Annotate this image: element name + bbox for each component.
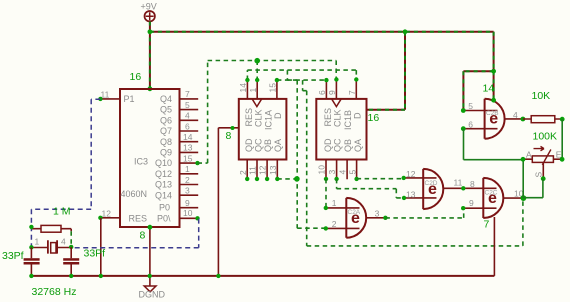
svg-text:13: 13 bbox=[406, 189, 416, 199]
wire IC2B pin6 to pot A green bbox=[464, 129, 523, 160]
svg-text:D: D bbox=[353, 112, 363, 119]
svg-text:2: 2 bbox=[238, 170, 248, 175]
node +9V junction at rail left bbox=[148, 29, 153, 34]
node IC2A pin2 bbox=[324, 226, 328, 230]
wire IC1B QA to gate pin12 dashed bbox=[357, 178, 404, 180]
svg-text:7: 7 bbox=[185, 89, 190, 99]
wire IC1A bottom pin lines bbox=[247, 160, 277, 179]
node IC3 pin10 bbox=[195, 216, 199, 220]
svg-text:4: 4 bbox=[61, 237, 66, 247]
svg-text:Q6: Q6 bbox=[160, 115, 172, 125]
svg-text:1 M: 1 M bbox=[53, 206, 71, 218]
node +9V junction at x405 bbox=[403, 29, 408, 34]
wire IC3 right pin stubs bbox=[180, 99, 199, 218]
svg-text:10K: 10K bbox=[532, 90, 551, 102]
label IC1B pin names rotated bbox=[323, 108, 363, 152]
svg-text:Q5: Q5 bbox=[160, 105, 172, 115]
svg-text:CLK: CLK bbox=[333, 109, 343, 127]
node IC1B QD pin bbox=[324, 177, 328, 181]
node IC2B pin14 bbox=[491, 98, 496, 103]
svg-text:C2A: C2A bbox=[348, 209, 361, 216]
node IC1B D pin bbox=[354, 77, 358, 81]
label IC1A bottom pin numbers bbox=[238, 165, 278, 175]
svg-text:11: 11 bbox=[454, 178, 463, 188]
node IC2C pin10 bbox=[521, 195, 527, 201]
wire IC1B QD to gate pin1 dashed bbox=[325, 179, 327, 208]
node IC1B QA pin bbox=[354, 177, 358, 181]
crystal Q1 32768 Hz bbox=[31, 240, 71, 253]
label IC2A pin numbers bbox=[332, 198, 380, 229]
wire pot S to IC2C out green bbox=[523, 179, 543, 198]
wire R right to pot E green bbox=[561, 119, 563, 159]
svg-text:Q4: Q4 bbox=[160, 94, 172, 104]
svg-text:6: 6 bbox=[317, 90, 327, 95]
node IC2B pin4 bbox=[521, 117, 526, 122]
svg-text:C2D: C2D bbox=[425, 180, 438, 187]
svg-text:QD: QD bbox=[323, 138, 333, 152]
svg-text:2: 2 bbox=[332, 219, 337, 229]
node IC1A CLK pin bbox=[255, 78, 259, 82]
label crystal pins bbox=[35, 237, 67, 247]
svg-text:CLK: CLK bbox=[253, 109, 263, 127]
label IC1B top pin numbers bbox=[317, 90, 357, 95]
node IC3 pin11 bbox=[98, 97, 102, 101]
node rail C1 bbox=[29, 274, 33, 278]
node IC1A pin8 bbox=[231, 126, 235, 130]
svg-text:Q7: Q7 bbox=[160, 126, 172, 136]
node IC2C pin9 bbox=[461, 206, 465, 210]
node rail pin12 bbox=[99, 274, 103, 278]
wire IC1B QC to gate pin13 dashed bbox=[337, 179, 404, 198]
svg-text:Q8: Q8 bbox=[160, 137, 172, 147]
svg-text:1: 1 bbox=[35, 237, 40, 247]
wire 1M right to crystal node green dashed bbox=[70, 231, 72, 245]
node IC2D pin13 bbox=[402, 196, 406, 200]
node rail C2 bbox=[69, 274, 73, 278]
svg-text:QA: QA bbox=[353, 139, 363, 152]
svg-text:10: 10 bbox=[317, 165, 327, 175]
svg-text:13: 13 bbox=[183, 143, 193, 153]
node rail pin8 bbox=[148, 274, 152, 278]
supply symbol +9V bbox=[141, 2, 157, 22]
svg-text:QA: QA bbox=[273, 139, 283, 152]
node IC2D pin12 bbox=[402, 176, 406, 180]
wire reset net dashed bbox=[247, 70, 523, 246]
svg-text:2: 2 bbox=[185, 175, 190, 185]
svg-text:8: 8 bbox=[140, 230, 146, 242]
ground DGND bbox=[139, 286, 166, 300]
svg-text:12: 12 bbox=[258, 165, 268, 175]
label IC3 pin numbers bbox=[101, 89, 193, 218]
svg-text:QC: QC bbox=[254, 138, 264, 152]
XOR gate IC2C bbox=[463, 178, 523, 218]
wire IC1A top pin lines bbox=[247, 80, 277, 99]
svg-text:6: 6 bbox=[468, 120, 473, 130]
svg-text:6: 6 bbox=[185, 121, 190, 131]
svg-text:RES: RES bbox=[323, 108, 333, 127]
svg-text:4060N: 4060N bbox=[121, 189, 148, 199]
svg-text:4: 4 bbox=[338, 170, 348, 175]
resistor R 10K bbox=[523, 116, 562, 123]
svg-text:15: 15 bbox=[183, 153, 193, 163]
svg-text:14: 14 bbox=[183, 132, 193, 142]
node pot S bbox=[541, 176, 546, 181]
svg-text:16: 16 bbox=[368, 112, 380, 124]
svg-text:QC: QC bbox=[333, 138, 343, 152]
svg-text:11: 11 bbox=[248, 166, 258, 175]
resistor R1 1M bbox=[32, 225, 72, 232]
node pot A bbox=[521, 157, 526, 162]
svg-text:Q10: Q10 bbox=[155, 158, 172, 168]
svg-text:16: 16 bbox=[130, 71, 142, 83]
svg-text:5: 5 bbox=[468, 101, 473, 111]
svg-text:33Pf: 33Pf bbox=[2, 250, 24, 262]
svg-text:Q12: Q12 bbox=[155, 169, 172, 179]
svg-text:7: 7 bbox=[484, 219, 490, 231]
capacitor C2 33Pf right bbox=[63, 247, 79, 276]
IC1A shift register half (4015) bbox=[239, 99, 287, 160]
node IC3 pin8 bbox=[148, 225, 153, 230]
wire ground rail bbox=[31, 275, 495, 277]
svg-text:C2C: C2C bbox=[485, 190, 498, 197]
svg-text:C2B: C2B bbox=[486, 110, 499, 117]
clock wedge IC1B bbox=[332, 99, 341, 106]
wire IC1B bottom pin lines bbox=[326, 160, 357, 180]
node crystal left bbox=[29, 245, 33, 249]
node IC1A QD pin bbox=[245, 177, 249, 181]
node IC2A pin3 bbox=[383, 216, 387, 220]
node IC1B CLK pin bbox=[334, 77, 338, 81]
svg-text:P0\: P0\ bbox=[157, 213, 171, 223]
svg-text:Q14: Q14 bbox=[155, 190, 172, 200]
wire IC3 pin12 to ground rail bbox=[100, 218, 102, 276]
svg-text:S: S bbox=[534, 172, 544, 178]
wire clock net Q10 dashed bbox=[150, 32, 336, 163]
label IC1B bottom pin numbers bbox=[317, 165, 358, 175]
node R right bbox=[560, 117, 565, 122]
svg-text:32768 Hz: 32768 Hz bbox=[32, 286, 77, 298]
node rail IC1A gnd bbox=[216, 274, 220, 278]
svg-text:3: 3 bbox=[375, 209, 380, 219]
node IC1A D pin bbox=[275, 78, 279, 82]
wire oscillator output net navy dashed bbox=[73, 219, 199, 248]
capacitor C1 33Pf left bbox=[24, 247, 40, 276]
svg-text:33Pf: 33Pf bbox=[84, 248, 106, 260]
svg-text:9: 9 bbox=[327, 90, 337, 95]
wire IC1A pin8 to ground bbox=[218, 128, 238, 276]
wire pot A to IC2C out green bbox=[522, 160, 524, 198]
node IC3 pin15 bbox=[195, 161, 199, 165]
svg-text:13: 13 bbox=[268, 165, 278, 175]
svg-text:9: 9 bbox=[185, 198, 190, 208]
svg-text:10: 10 bbox=[183, 208, 193, 218]
svg-text:QB: QB bbox=[343, 139, 353, 152]
node IC2B pin6 bbox=[461, 126, 466, 131]
node IC2D pin11 bbox=[461, 186, 465, 190]
svg-text:3: 3 bbox=[327, 170, 337, 175]
node +9V junction right bbox=[491, 69, 496, 74]
svg-text:14: 14 bbox=[238, 83, 248, 93]
node IC2B pin5 bbox=[461, 108, 466, 113]
wire IC3 pin8 to DGND bbox=[149, 227, 151, 286]
XOR gate IC2D bbox=[404, 169, 497, 209]
wire D input net of IC1A dashed bbox=[277, 80, 326, 228]
svg-text:1: 1 bbox=[332, 198, 337, 208]
wire oscillator input net navy dashed bbox=[31, 99, 100, 247]
svg-text:12: 12 bbox=[102, 208, 112, 218]
svg-text:4: 4 bbox=[513, 110, 518, 120]
node crystal right bbox=[69, 245, 73, 249]
potentiometer 100K bbox=[523, 146, 562, 178]
node IC1A QC pin bbox=[255, 177, 259, 181]
node clock net junction bbox=[254, 58, 260, 64]
node IC1B RES pin bbox=[324, 78, 328, 82]
node IC3 pin12 bbox=[98, 216, 102, 220]
wire IC2C pin7 to ground rail bbox=[493, 217, 495, 276]
node IC1A QB pin bbox=[265, 177, 269, 181]
node IC2A pin1 bbox=[324, 206, 328, 210]
label IC1A top pin numbers bbox=[238, 83, 278, 93]
clock wedge IC1A bbox=[252, 99, 261, 106]
svg-text:8: 8 bbox=[470, 179, 475, 189]
svg-text:100K: 100K bbox=[533, 131, 558, 143]
svg-text:14: 14 bbox=[483, 83, 495, 95]
IC1B shift register half (4015) bbox=[316, 99, 366, 160]
svg-text:8: 8 bbox=[226, 130, 232, 142]
svg-text:1: 1 bbox=[185, 164, 190, 174]
node IC1B QC pin bbox=[334, 177, 338, 181]
label IC2C pin numbers bbox=[469, 179, 524, 208]
svg-text:1: 1 bbox=[248, 88, 258, 93]
svg-text:3: 3 bbox=[185, 186, 190, 196]
XOR gate IC2B bbox=[463, 99, 523, 139]
wire +9V net (maroon with green dash overlay) bbox=[150, 22, 494, 111]
label IC2D pin numbers bbox=[406, 169, 463, 199]
svg-text:IC3: IC3 bbox=[134, 156, 148, 166]
XOR gate IC2A bbox=[326, 198, 386, 238]
wire IC3 left pin stubs bbox=[100, 99, 120, 218]
label IC1A pin names rotated bbox=[244, 108, 283, 152]
svg-text:IC1B: IC1B bbox=[343, 110, 353, 130]
svg-text:D: D bbox=[273, 112, 283, 119]
node IC3 VDD pin bbox=[148, 86, 153, 91]
svg-text:12: 12 bbox=[406, 169, 416, 179]
svg-text:DGND: DGND bbox=[139, 290, 166, 300]
node D net junction bbox=[294, 176, 300, 182]
svg-text:Q9: Q9 bbox=[160, 148, 172, 158]
node 1M left bbox=[29, 225, 33, 229]
svg-text:A: A bbox=[526, 149, 532, 159]
svg-text:Q13: Q13 bbox=[155, 180, 172, 190]
node IC1A RES pin bbox=[245, 78, 249, 82]
svg-text:QB: QB bbox=[263, 139, 273, 152]
wire IC1B top pin lines bbox=[326, 80, 356, 99]
node pot E bbox=[560, 157, 565, 162]
op-amp IC3 body (4060 counter) bbox=[120, 89, 180, 227]
svg-text:+9V: +9V bbox=[141, 2, 157, 12]
svg-text:4: 4 bbox=[185, 111, 190, 121]
label IC2B pin numbers bbox=[468, 101, 518, 130]
svg-text:P1: P1 bbox=[124, 94, 135, 104]
svg-text:RES: RES bbox=[129, 213, 148, 223]
node IC1A QA pin bbox=[275, 177, 279, 181]
svg-text:QD: QD bbox=[244, 138, 254, 152]
label IC3 pin names bbox=[121, 94, 173, 223]
svg-text:9: 9 bbox=[469, 198, 474, 208]
label pot terminals bbox=[526, 149, 562, 177]
svg-text:5: 5 bbox=[185, 100, 190, 110]
wire IC2A out to IC2C pin9 dashed bbox=[385, 208, 463, 218]
svg-text:P0: P0 bbox=[159, 203, 170, 213]
svg-text:15: 15 bbox=[268, 83, 278, 93]
